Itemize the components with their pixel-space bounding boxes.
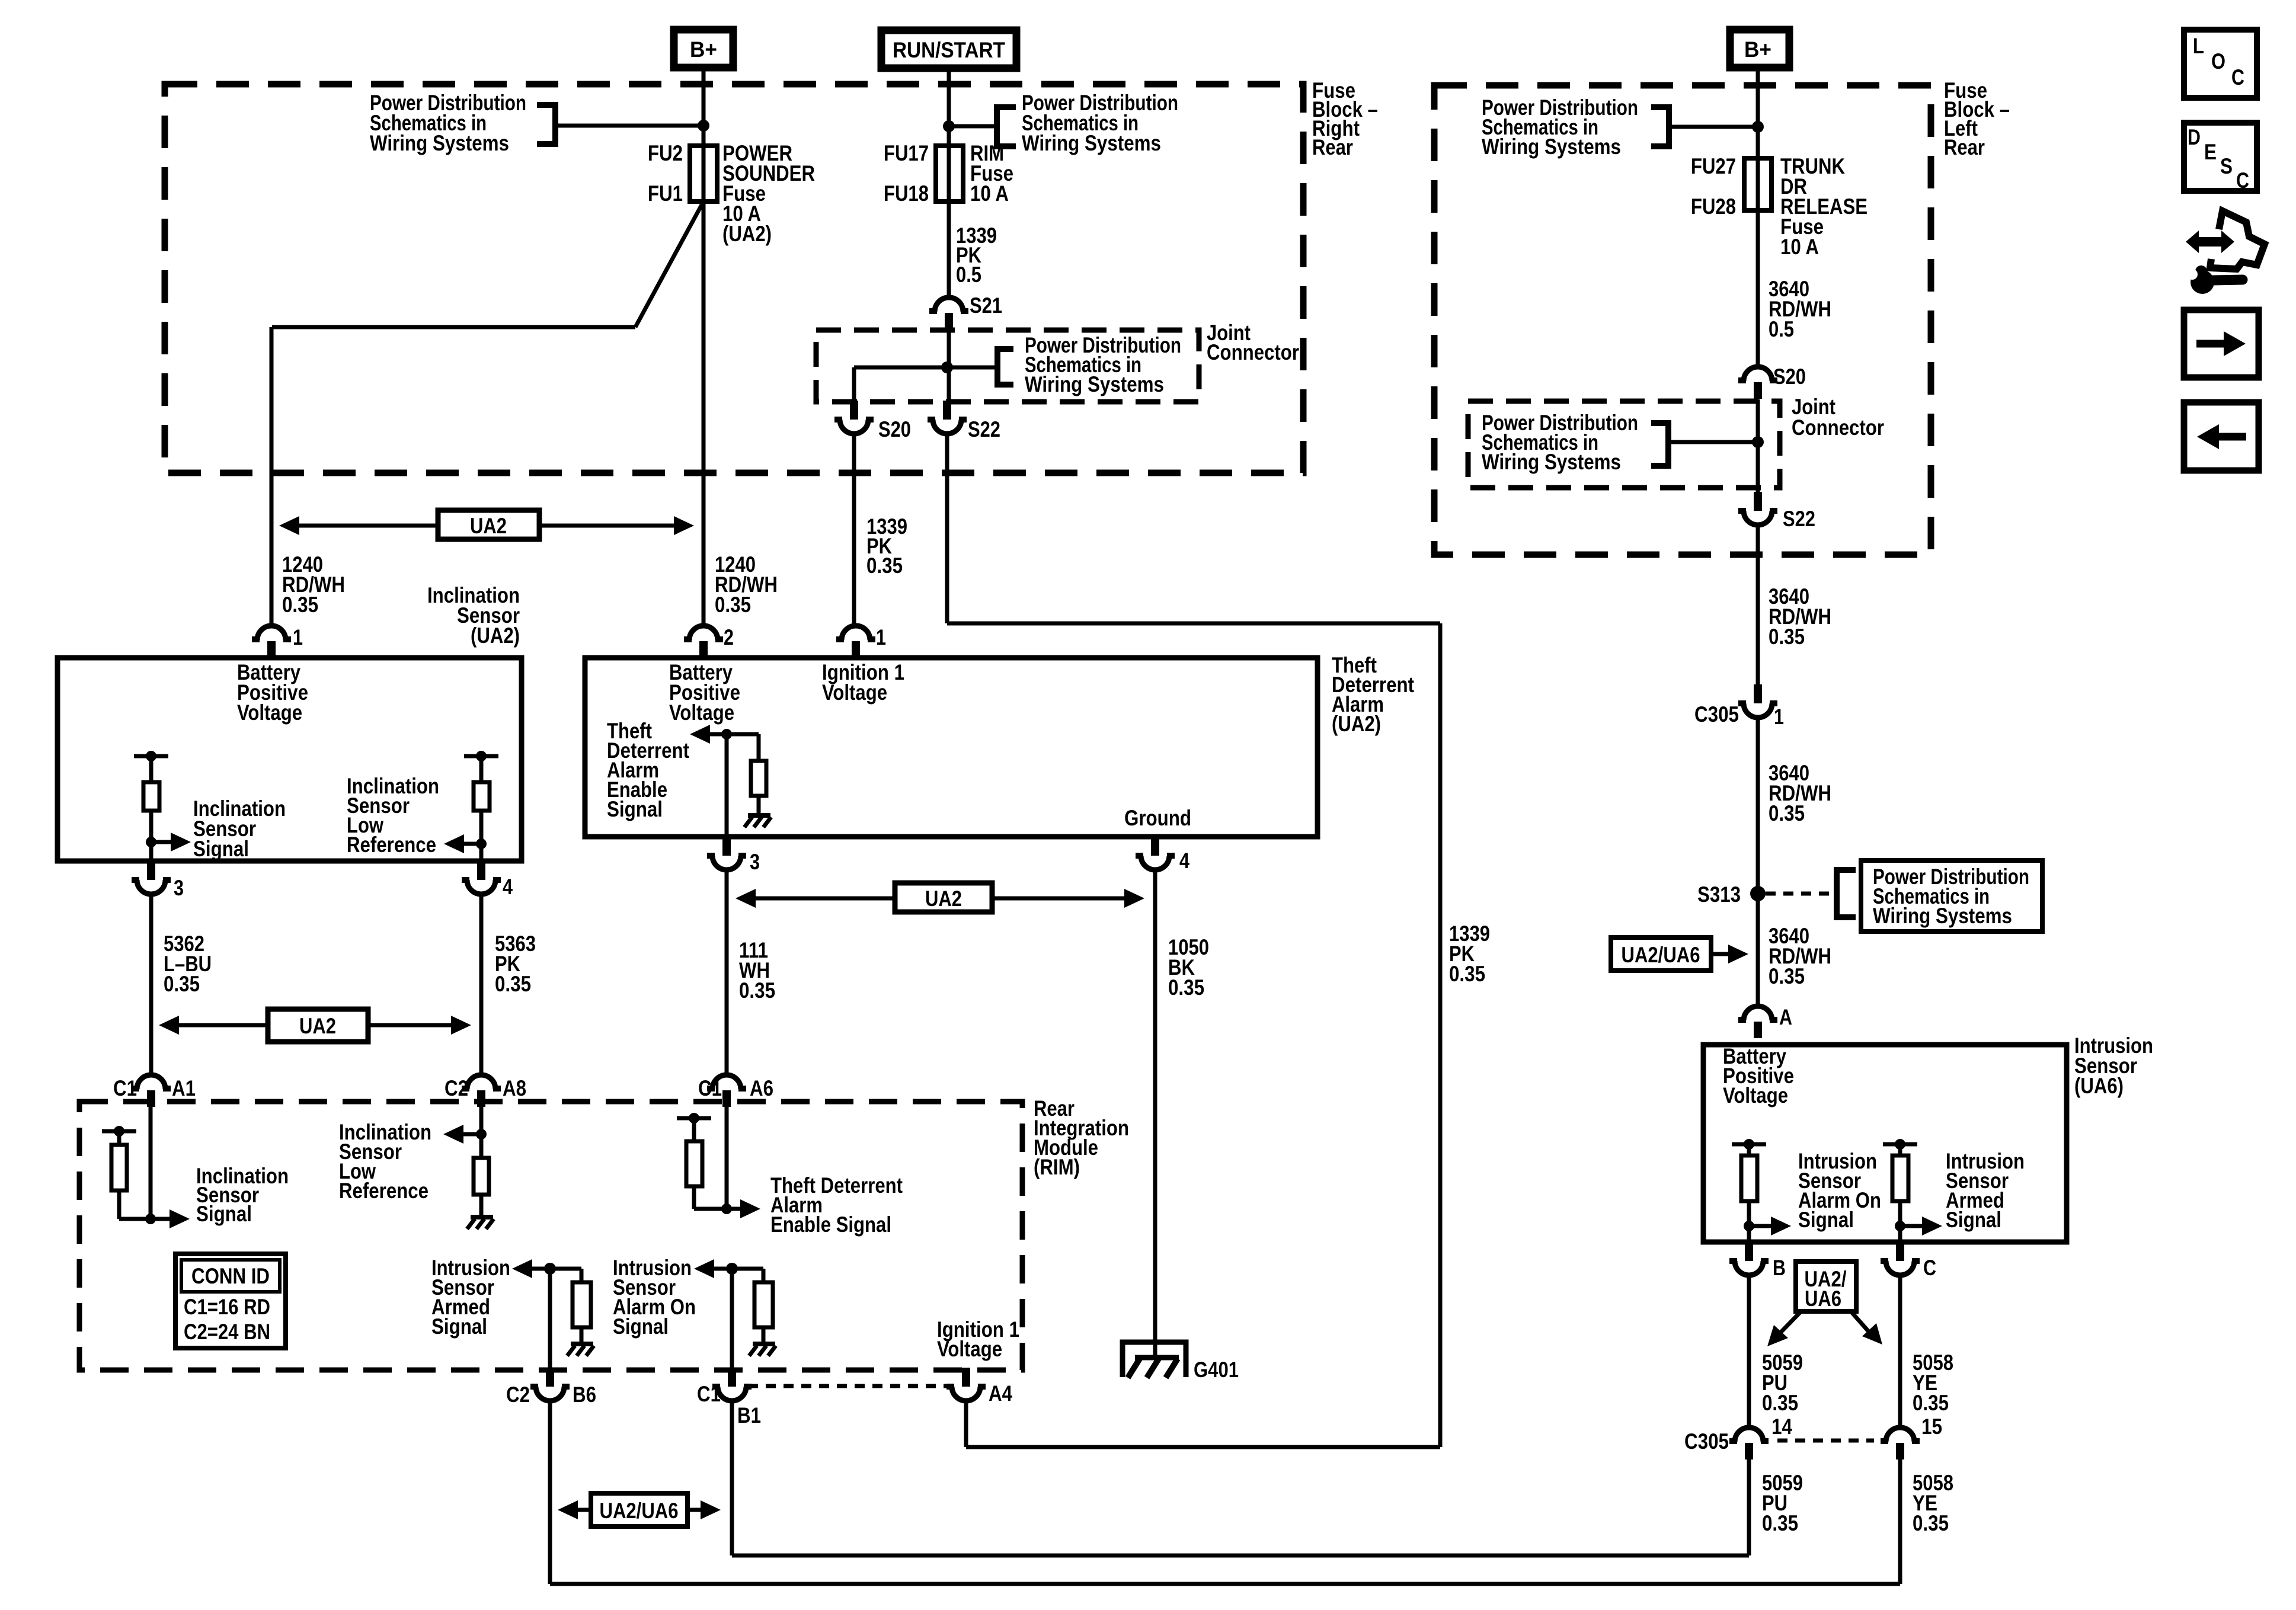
wire pin3 to C1/A1: [149, 894, 154, 1075]
svg-text:Signal: Signal: [1798, 1208, 1854, 1232]
svg-text:FU27: FU27: [1691, 154, 1736, 178]
forward arrow icon box: [2184, 310, 2259, 377]
svg-text:Signal: Signal: [196, 1202, 252, 1226]
junction dot in joint connector: [941, 361, 953, 373]
B+ terminal (left): [674, 30, 733, 68]
svg-text:C2: C2: [506, 1382, 530, 1407]
bracket (power distribution ref, run/start): [997, 104, 1016, 110]
bracket (power distribution ref, right): [1651, 104, 1669, 110]
svg-text:E: E: [2204, 140, 2217, 164]
wire B6 tail to bottom route: [548, 1401, 552, 1584]
connector pin 1 (inclination): [257, 626, 286, 640]
svg-text:Wiring Systems: Wiring Systems: [1873, 904, 2012, 928]
RUN/START terminal: [881, 30, 1016, 68]
svg-text:Connector: Connector: [1792, 415, 1884, 440]
wire to power distribution bracket (right): [1669, 125, 1758, 129]
svg-text:A: A: [1779, 1005, 1792, 1029]
svg-text:0.35: 0.35: [1449, 962, 1485, 986]
svg-text:C: C: [2236, 168, 2249, 193]
junction dot (theft enable signal): [721, 729, 732, 740]
wire pin4 through box bottom: [479, 844, 484, 861]
connector pin 2 (theft): [689, 626, 718, 640]
svg-text:0.35: 0.35: [1762, 1391, 1798, 1415]
joint connector (dashed box, left): [816, 330, 1199, 402]
ground G401: [1123, 1342, 1186, 1377]
svg-text:S: S: [2220, 154, 2233, 178]
wire C305-1 to S313: [1756, 718, 1760, 1006]
svg-text:C2: C2: [445, 1076, 468, 1100]
junction dot pin4 (inclination): [476, 838, 487, 849]
svg-text:Wiring Systems: Wiring Systems: [370, 131, 509, 155]
svg-text:Connector: Connector: [1207, 340, 1299, 364]
DESC icon box: [2184, 123, 2257, 191]
svg-text:C: C: [2231, 65, 2244, 89]
bracket (power distribution ref, joint right): [1651, 420, 1668, 426]
svg-text:A1: A1: [172, 1076, 196, 1100]
connector A4: [962, 1368, 970, 1387]
wire to power distribution bracket (joint right): [1668, 440, 1758, 444]
svg-text:Voltage: Voltage: [1723, 1083, 1788, 1108]
LOC icon box: [2184, 30, 2257, 98]
svg-text:C1: C1: [113, 1076, 137, 1100]
svg-text:0.5: 0.5: [956, 263, 981, 287]
wire S22 right to C305-1: [1756, 525, 1760, 684]
svg-text:0.35: 0.35: [164, 972, 200, 996]
resistor (intrusion alarm on): [1732, 1142, 1766, 1147]
connector C2/A8: [467, 1075, 495, 1089]
junction dot A8 (RIM): [476, 1129, 487, 1140]
svg-text:Wiring Systems: Wiring Systems: [1025, 372, 1164, 396]
fuse block - right rear (dashed box): [165, 84, 1303, 473]
svg-text:0.35: 0.35: [1168, 975, 1204, 1000]
svg-text:(UA2): (UA2): [722, 222, 772, 246]
svg-text:2: 2: [724, 625, 734, 649]
connector pin 3 (inclination): [147, 861, 155, 880]
svg-text:Voltage: Voltage: [237, 700, 302, 725]
svg-text:UA6: UA6: [1805, 1286, 1841, 1311]
bracket (power distribution ref, joint): [997, 346, 1013, 352]
svg-text:Rear: Rear: [1312, 135, 1353, 159]
UA2/UA6 harness arrow (right middle): [1611, 937, 1711, 971]
svg-text:0.35: 0.35: [282, 593, 318, 617]
arrow: intrusion sensor alarm on signal: [1749, 1224, 1773, 1228]
wire pin3 through box bottom: [149, 842, 154, 861]
connector C305 pin 14: [1735, 1427, 1763, 1442]
resistor B6 to ground (RIM): [550, 1267, 581, 1271]
wire B1 to connector: [730, 1269, 734, 1368]
svg-text:Wiring Systems: Wiring Systems: [1482, 450, 1621, 474]
UA2 harness arrow (top): [297, 524, 438, 528]
resistor B1 to ground (RIM): [732, 1267, 763, 1271]
svg-text:CONN ID: CONN ID: [191, 1264, 270, 1288]
svg-text:S20: S20: [878, 417, 911, 441]
svg-text:C: C: [1923, 1256, 1936, 1280]
svg-text:(UA6): (UA6): [2074, 1074, 2124, 1098]
svg-text:15: 15: [1921, 1414, 1942, 1439]
CONN ID table: [175, 1254, 286, 1348]
wire B+ right down to fuse FU27: [1756, 68, 1760, 161]
arrow UA2/UA6 to wire B: [1780, 1311, 1802, 1333]
svg-text:FU2: FU2: [648, 141, 683, 165]
svg-text:Signal: Signal: [431, 1314, 487, 1339]
svg-text:Signal: Signal: [1946, 1208, 2001, 1232]
wire to power distribution bracket (run/start): [949, 124, 997, 129]
bracket (power distribution ref, left): [537, 102, 555, 108]
svg-text:A6: A6: [750, 1076, 773, 1100]
svg-text:Enable Signal: Enable Signal: [770, 1212, 891, 1237]
wire S20 through joint connector (right): [1756, 399, 1760, 492]
svg-text:UA2: UA2: [925, 886, 962, 911]
svg-text:B+: B+: [1744, 37, 1771, 62]
arrow: inclination sensor low reference (RIM): [461, 1132, 481, 1137]
inclination sensor (UA2) box: [57, 658, 522, 861]
wire S22 to rear integration module A4 (long route): [945, 433, 949, 623]
svg-text:Wiring Systems: Wiring Systems: [1482, 135, 1621, 159]
svg-text:(UA2): (UA2): [1332, 712, 1381, 736]
svg-text:O: O: [2211, 49, 2225, 73]
wire A4 tail: [964, 1401, 968, 1447]
svg-text:UA2/UA6: UA2/UA6: [1622, 943, 1700, 967]
arrow: inclination sensor signal: [151, 840, 173, 844]
svg-text:C2=24 BN: C2=24 BN: [184, 1320, 270, 1344]
fuse FU17/FU18 RIM Fuse 10 A: [947, 148, 951, 201]
svg-text:UA2: UA2: [299, 1014, 336, 1038]
arrow: inclination sensor signal (RIM): [151, 1217, 172, 1221]
connector C1/A1: [137, 1075, 165, 1089]
connector pin 1 (theft): [842, 626, 870, 640]
svg-text:Ground: Ground: [1124, 806, 1191, 830]
junction dot A1 (RIM): [145, 1214, 156, 1224]
dashed connector face line C305 14-15: [1777, 1439, 1874, 1443]
junction dot A6 (RIM): [721, 1204, 732, 1214]
dashed connector face line B1-A4: [748, 1384, 948, 1388]
svg-text:S22: S22: [968, 417, 1000, 441]
junction dot on right B+ wire: [1752, 121, 1764, 133]
connector A (intrusion sensor): [1744, 1006, 1772, 1020]
wire B to C305-14: [1747, 1275, 1751, 1426]
svg-text:0.35: 0.35: [1762, 1511, 1798, 1535]
splice S22 (right): [1754, 492, 1762, 511]
resistor (intrusion armed): [1883, 1142, 1917, 1147]
arrow: inclination sensor low reference: [462, 842, 481, 846]
wire C to C305-15: [1898, 1275, 1902, 1426]
svg-text:S313: S313: [1697, 882, 1741, 907]
UA2 harness arrow (below theft box): [753, 897, 895, 901]
junction dot B1 (RIM): [726, 1263, 738, 1275]
svg-text:14: 14: [1771, 1414, 1792, 1439]
connector C (intrusion): [1896, 1242, 1904, 1261]
wire from fuse FU1 down-left to inclination sensor branch: [635, 201, 703, 327]
joint connector (dashed box, right): [1468, 401, 1780, 488]
svg-text:C305: C305: [1694, 702, 1739, 726]
svg-text:Reference: Reference: [339, 1179, 428, 1203]
junction dot on RUN/START wire: [943, 120, 955, 132]
ground (B1 RIM): [753, 1342, 775, 1346]
svg-text:0.5: 0.5: [1769, 317, 1794, 341]
svg-text:10 A: 10 A: [970, 181, 1009, 206]
rear integration module (RIM) dashed box: [79, 1102, 1022, 1370]
wire A6 down to junction (RIM): [725, 1102, 729, 1209]
wire C305-15 to bottom route: [1898, 1458, 1902, 1584]
splice S22 (left): [943, 401, 951, 420]
svg-text:S22: S22: [1783, 507, 1815, 531]
wire pin3 theft to C1/A6: [725, 870, 729, 1075]
svg-text:B1: B1: [737, 1403, 761, 1427]
svg-text:B6: B6: [573, 1382, 596, 1407]
splice S21: [935, 297, 963, 312]
svg-text:Signal: Signal: [193, 837, 249, 861]
repair icon (arrow, part, wrench): [2210, 211, 2265, 269]
connector B (intrusion): [1745, 1242, 1753, 1261]
wire B+ to fuse FU2: [702, 68, 706, 148]
svg-text:0.35: 0.35: [739, 978, 775, 1003]
svg-text:Voltage: Voltage: [822, 680, 887, 705]
dashed ref line from S313: [1766, 892, 1837, 896]
UA2/UA6 harness arrow (bottom left): [575, 1508, 591, 1512]
theft deterrent alarm (UA2) box: [585, 658, 1318, 837]
svg-text:B: B: [1773, 1256, 1786, 1280]
arrow: intrusion sensor armed signal: [1900, 1224, 1924, 1228]
B+ terminal (right): [1730, 30, 1789, 68]
connector pin 3 (theft): [722, 837, 731, 856]
resistor to ground (theft): [727, 732, 759, 737]
svg-text:0.35: 0.35: [1913, 1511, 1949, 1535]
UA2/UA6 harness box (bottom right): [1796, 1262, 1856, 1311]
fuse block - left rear (dashed box): [1434, 85, 1931, 555]
resistor A8 to ground (RIM): [479, 1134, 484, 1158]
svg-text:0.35: 0.35: [495, 972, 531, 996]
wire to S20 corner: [854, 366, 947, 370]
arrow: intrusion sensor armed signal (RIM): [530, 1267, 550, 1271]
UA2 harness arrow (middle left): [177, 1023, 268, 1028]
connector pin 4 (theft): [1151, 837, 1159, 856]
splice S20 (left): [850, 401, 858, 420]
svg-text:4: 4: [1179, 849, 1189, 873]
svg-text:S20: S20: [1773, 364, 1806, 389]
svg-text:C1: C1: [698, 1076, 722, 1100]
svg-text:FU18: FU18: [884, 181, 929, 206]
resistor branch A1 (inclination sensor signal, RIM): [102, 1129, 136, 1134]
svg-text:A8: A8: [503, 1076, 526, 1100]
splice S20 (right): [1744, 367, 1772, 381]
svg-text:3: 3: [174, 876, 184, 900]
svg-text:UA2/UA6: UA2/UA6: [600, 1499, 679, 1523]
power distribution reference box (S313): [1861, 860, 2042, 932]
svg-text:C1=16 RD: C1=16 RD: [184, 1295, 270, 1319]
svg-text:Rear: Rear: [1944, 135, 1985, 159]
svg-text:B+: B+: [690, 37, 717, 62]
svg-text:Reference: Reference: [347, 833, 436, 857]
svg-text:FU17: FU17: [884, 141, 929, 165]
svg-text:(UA2): (UA2): [471, 623, 520, 648]
svg-text:C1: C1: [697, 1382, 721, 1406]
wire S20 to theft deterrent alarm pin 1: [852, 433, 856, 625]
wire B+ down to theft deterrent alarm pin 2: [702, 201, 706, 625]
svg-text:1: 1: [293, 625, 303, 649]
connector C1/A6: [712, 1075, 741, 1089]
svg-text:4: 4: [503, 875, 513, 899]
junction dot B (intrusion): [1744, 1221, 1754, 1231]
resistor (inclination sensor signal): [134, 754, 168, 758]
ground (A8 RIM): [471, 1215, 493, 1219]
svg-text:Voltage: Voltage: [937, 1337, 1002, 1361]
resistor branch A6 (theft deterrent alarm enable, RIM): [677, 1116, 711, 1121]
svg-text:A4: A4: [989, 1381, 1012, 1406]
svg-text:1: 1: [876, 625, 886, 649]
wire C305-14 to bottom route: [1747, 1458, 1751, 1555]
svg-text:3: 3: [750, 850, 760, 874]
wire FU18 to splice S21: [947, 201, 951, 298]
svg-text:D: D: [2188, 125, 2201, 149]
svg-text:1: 1: [1774, 705, 1784, 729]
ground (B6 RIM): [571, 1342, 593, 1346]
junction dot C (intrusion): [1895, 1221, 1905, 1231]
arrow UA2/UA6 to wire C: [1850, 1311, 1868, 1331]
fuse FU27/FU28 TRUNK DR RELEASE Fuse 10 A: [1756, 161, 1760, 210]
ground (theft internal): [748, 813, 770, 818]
svg-text:0.35: 0.35: [1769, 625, 1805, 649]
junction dot on B+ wire: [698, 120, 709, 132]
svg-text:RUN/START: RUN/START: [893, 38, 1005, 62]
arrow: theft deterrent alarm enable signal (RIM): [727, 1207, 743, 1211]
bottom route wire B6 to C305-15: [550, 1582, 1900, 1586]
connector C305 pin 15: [1886, 1427, 1914, 1442]
wire S21 through joint connector: [947, 329, 951, 401]
arrow: intrusion sensor alarm on signal (RIM): [712, 1267, 732, 1271]
svg-text:0.35: 0.35: [1769, 964, 1805, 988]
svg-text:C305: C305: [1684, 1429, 1729, 1454]
wire A8 down to junction (RIM): [479, 1102, 484, 1135]
wire FU28 to splice S20 (right): [1756, 210, 1760, 367]
svg-text:0.35: 0.35: [1913, 1391, 1949, 1415]
svg-text:(RIM): (RIM): [1034, 1155, 1080, 1179]
junction dot in joint connector (right): [1752, 436, 1764, 448]
wire junction to pin 3 (theft): [725, 734, 729, 837]
wire A1 down to junction: [149, 1102, 153, 1219]
wire RUN/START down to fuse FU17: [947, 68, 951, 148]
connector C2/B6: [546, 1368, 554, 1387]
connector C1/B1: [728, 1368, 736, 1387]
back arrow icon box: [2184, 402, 2259, 470]
wire to power distribution bracket (joint): [947, 366, 997, 370]
svg-text:0.35: 0.35: [715, 593, 751, 617]
resistor (inclination sensor low reference): [464, 754, 498, 758]
splice S313: [1750, 886, 1766, 901]
svg-text:0.35: 0.35: [1769, 801, 1805, 825]
connector pin 4 (inclination): [477, 861, 485, 880]
svg-text:G401: G401: [1194, 1358, 1239, 1382]
svg-text:Wiring Systems: Wiring Systems: [1022, 131, 1161, 155]
svg-text:Voltage: Voltage: [669, 700, 734, 725]
intrusion sensor (UA6) box: [1703, 1045, 2067, 1242]
svg-text:10 A: 10 A: [1780, 235, 1819, 259]
junction dot pin3 (inclination): [146, 837, 156, 847]
bracket (power distribution ref, S313): [1837, 867, 1856, 873]
svg-text:UA2: UA2: [470, 514, 507, 538]
svg-text:0.35: 0.35: [866, 553, 903, 578]
svg-text:L: L: [2193, 34, 2204, 58]
svg-text:S21: S21: [970, 293, 1002, 318]
arrow: theft deterrent alarm enable signal: [708, 732, 727, 737]
junction dot B6 (RIM): [544, 1263, 556, 1275]
wire pin4 to C2/A8: [479, 894, 484, 1075]
svg-text:Signal: Signal: [607, 797, 663, 821]
svg-text:Signal: Signal: [613, 1314, 669, 1339]
svg-text:FU28: FU28: [1691, 194, 1736, 219]
wire pin4 theft to G401: [1153, 870, 1157, 1358]
wire B6 to connector: [548, 1269, 552, 1368]
connector C305 pin 1: [1754, 684, 1762, 703]
fuse FU2/FU1 POWER SOUNDER Fuse 10 A (UA2): [702, 148, 706, 201]
wire B1 tail to bottom route: [730, 1401, 734, 1555]
wire to power distribution bracket: [555, 124, 703, 128]
bottom route wire B1 to C305-14: [732, 1554, 1749, 1558]
svg-text:FU1: FU1: [648, 181, 683, 206]
